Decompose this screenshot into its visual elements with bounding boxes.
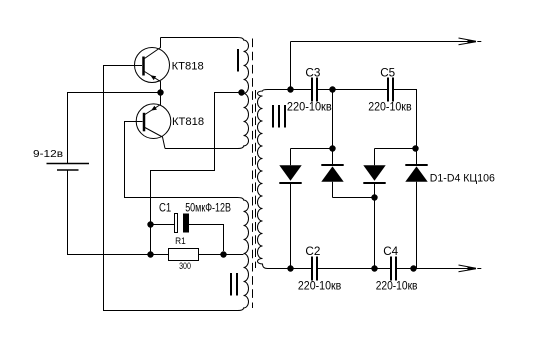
svg-text:C5: C5 <box>380 65 395 79</box>
winding label II <box>230 273 232 296</box>
transformer core (dashed line, primary side) <box>252 39 254 309</box>
battery GB1 positive plate <box>47 163 90 165</box>
wire: diode top bridge 1 (D1-D2) <box>291 148 333 150</box>
wire: secondary top to C3 node <box>268 89 291 91</box>
junction: C3 left node <box>287 86 293 92</box>
transistor Q1 base bar <box>142 57 145 76</box>
wire: D2/D3 node to bottom rail <box>374 198 376 269</box>
transistor Q1 KT818 (upper, PNP) body circle <box>135 48 170 83</box>
svg-text:300: 300 <box>179 261 191 271</box>
svg-text:R1: R1 <box>175 236 186 246</box>
wire: battery minus to R1 and winding II tap <box>68 170 244 255</box>
junction: D2/D3 node <box>371 194 377 200</box>
capacitor C4 plates <box>390 257 392 281</box>
transistor Q2 KT818 (lower, PNP) body circle <box>136 104 171 139</box>
transistor Q2 collector lead <box>145 128 165 149</box>
capacitor C1 positive plate (solid) <box>183 214 189 233</box>
wire: emitters rail to battery plus <box>68 93 161 164</box>
output arrow bottom <box>459 265 482 272</box>
wire: riser to top output rail <box>290 42 292 90</box>
junction: R1 right node <box>220 251 226 257</box>
junction: bottom rail / D4 <box>410 265 416 271</box>
svg-text:C3: C3 <box>305 65 320 79</box>
junction: emitters node <box>157 89 163 95</box>
wire: Q2 collector to winding I bottom <box>165 148 238 150</box>
wire: top rail from Q1 collector to winding I top <box>161 37 238 39</box>
junction: bottom rail / D1 <box>287 265 293 271</box>
junction: bridge1 node <box>329 145 335 151</box>
svg-text:C4: C4 <box>383 244 398 258</box>
svg-text:220-10кв: 220-10кв <box>298 280 341 292</box>
svg-text:C2: C2 <box>305 244 320 258</box>
svg-text:220-10кв: 220-10кв <box>376 280 418 292</box>
diode D4 (cathode up) <box>405 149 427 269</box>
junction: C3/C5 mid node <box>329 86 335 92</box>
diode D1 (cathode down) <box>279 149 301 269</box>
output arrow top <box>459 38 482 45</box>
junction: R1 left node <box>147 251 153 257</box>
resistor R1 body <box>169 249 199 261</box>
svg-text:C1: C1 <box>159 202 171 214</box>
capacitor C3 plates <box>311 78 313 102</box>
transformer winding III (HV secondary) <box>258 90 268 269</box>
transistor Q2 emitter arrow (PNP, points to base) <box>151 106 157 111</box>
svg-text:КТ818: КТ818 <box>172 116 204 128</box>
svg-text:220-10кв: 220-10кв <box>287 102 332 114</box>
transistor Q2 base bar <box>143 113 146 132</box>
wire: D2-D3 bottom bridge <box>333 197 375 199</box>
wire: Q1 base down and across to winding II bottom <box>104 66 238 311</box>
svg-text:КТ818: КТ818 <box>172 60 204 72</box>
wire: C1 branch <box>151 225 224 252</box>
transistor Q1 emitter arrow (PNP, points to base) <box>150 75 156 80</box>
wire: C3 row <box>291 90 417 149</box>
svg-text:50мкФ-12В: 50мкФ-12В <box>185 202 231 214</box>
battery GB1 negative plate <box>57 169 79 171</box>
transistor Q1 collector lead <box>145 38 161 59</box>
junction: winding I center tap <box>238 89 244 95</box>
capacitor C5 plates <box>387 78 389 102</box>
junction: bottom rail / D2-D3 <box>371 265 377 271</box>
transistor Q2 emitter lead <box>145 93 161 115</box>
svg-text:D1-D4 КЦ106: D1-D4 КЦ106 <box>430 173 495 185</box>
winding label III <box>272 105 274 128</box>
transformer winding II (base feedback winding) <box>238 198 249 311</box>
diode D2 (cathode up) <box>321 149 343 198</box>
wire: Q2 base down and across to winding II top <box>125 122 238 198</box>
winding label I <box>237 49 239 72</box>
diode D3 (cathode down) <box>363 149 385 198</box>
wire: diode top bridge 2 (D3-D4) <box>375 148 417 150</box>
junction: C1 left node <box>147 221 153 227</box>
capacitor C1 negative plate (hollow) <box>175 214 178 233</box>
transformer core (dashed line, secondary side) <box>255 90 257 268</box>
wire: mid node down to diode bridge 1 <box>332 90 334 149</box>
transformer winding I (primary, Q1/Q2 collectors, center tap) <box>238 38 249 149</box>
transistor Q1 emitter lead <box>145 72 161 93</box>
junction: bridge2 node <box>412 145 418 151</box>
wire: bottom output rail <box>268 268 471 270</box>
winding I center tap wire to C1 node <box>151 93 244 255</box>
svg-text:9-12в: 9-12в <box>33 149 63 160</box>
wire: top output rail <box>291 41 471 43</box>
capacitor C2 plates <box>311 257 313 281</box>
svg-text:220-10кв: 220-10кв <box>368 102 411 114</box>
